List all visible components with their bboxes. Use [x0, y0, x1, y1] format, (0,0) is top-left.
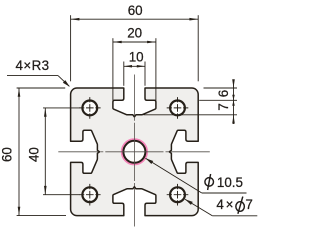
dim 60 left extension line bottom: [17, 215, 66, 217]
dim 10 arrow right: [137, 65, 145, 68]
dim 20 arrow left: [113, 41, 122, 44]
svg-text:40: 40: [27, 147, 42, 162]
vertical centerline: [133, 75, 135, 116]
dim 60 left extension line top: [17, 87, 66, 89]
dim 10 extension line right: [144, 62, 146, 86]
dim 20 dimension line: [113, 41, 156, 43]
leader 4xR3 arrow: [63, 80, 70, 87]
dim 10 dimension line: [124, 65, 145, 67]
dim 6 arrow down-to-top-line: [232, 79, 235, 88]
dim 20 extension line left: [112, 38, 114, 100]
dim 60 top arrow left: [71, 18, 80, 21]
leader line 4xR3 underline: [7, 75, 58, 77]
dim 6 arrow up-at-middle: [232, 100, 235, 106]
leader line 4x phi7 diagonal: [185, 199, 212, 216]
dim 60 left dimension line: [18, 88, 20, 216]
leader line 4x phi7 underline: [212, 215, 257, 217]
label 4x phi7 symbol: [236, 202, 245, 212]
dim 7 extension line bottom: [144, 114, 238, 116]
leader line phi10.5 underline: [202, 192, 247, 194]
leader phi10.5 arrow: [146, 158, 154, 164]
dim 40 arrow top: [44, 108, 47, 117]
svg-text:4: 4: [216, 197, 224, 212]
corner hole phi7 bottom-left: [82, 187, 97, 202]
dim 7 arrow up-to-bottom-line: [232, 115, 235, 124]
dim 60 top dimension line: [71, 18, 199, 20]
leader line 4xR3 diagonal: [58, 76, 69, 87]
dim 60 left arrow bottom: [18, 207, 21, 216]
svg-text:20: 20: [127, 26, 142, 41]
label phi10.5 symbol: [205, 178, 214, 187]
svg-text:60: 60: [128, 3, 143, 18]
profile body outline with four T-slots: [71, 88, 199, 216]
dim 10 arrow left: [124, 65, 132, 68]
dim 40 extension line top: [43, 107, 79, 109]
dim 20 arrow right: [147, 41, 156, 44]
svg-text:60: 60: [0, 147, 15, 162]
dim 10 extension line left: [123, 62, 125, 86]
svg-text:10: 10: [129, 49, 144, 64]
svg-text:7: 7: [216, 103, 231, 110]
corner hole phi7 bottom-right: [170, 187, 185, 202]
leader 4x phi7 arrow: [185, 199, 193, 205]
dim 60 top extension line right: [197, 15, 199, 81]
leader line phi10.5 diagonal: [146, 158, 202, 193]
dim 6/7 shared extension line: [199, 99, 237, 101]
svg-text:×: ×: [226, 197, 234, 212]
corner hole phi7 top-right: [170, 101, 185, 116]
svg-text:10.5: 10.5: [217, 175, 243, 190]
dim 40 arrow bottom: [44, 186, 47, 195]
horizontal centerline: [58, 151, 98, 153]
dim 7 arrow down-at-middle: [232, 95, 235, 101]
dim 6 extension line top: [204, 87, 238, 89]
corner hole phi7 top-left: [82, 101, 97, 116]
red highlight circle on center hole: [122, 140, 146, 164]
center hole phi10.5: [123, 141, 145, 163]
dim 6/7 dimension line: [233, 80, 235, 125]
dim 40 dimension line: [44, 108, 46, 195]
dim 40 extension line bottom: [43, 194, 79, 196]
svg-text:7: 7: [245, 197, 252, 212]
dim 60 top arrow right: [189, 18, 198, 21]
svg-text:6: 6: [216, 90, 231, 97]
dim 60 top extension line left: [70, 15, 72, 81]
dim 20 extension line right: [155, 38, 157, 100]
svg-text:4×R3: 4×R3: [16, 58, 50, 73]
dim 60 left arrow top: [18, 88, 21, 97]
